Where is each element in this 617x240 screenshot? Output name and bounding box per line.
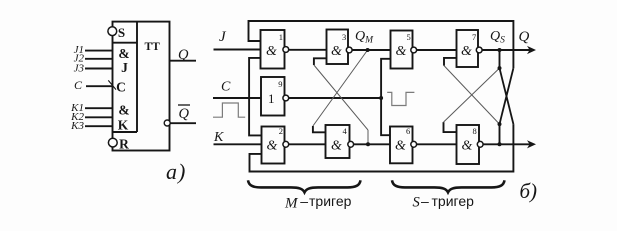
svg-text:&: &	[118, 46, 129, 61]
wire QM: gate3 out to gate5 in	[352, 49, 390, 51]
junction QM	[366, 48, 370, 52]
stub Q junction down	[499, 50, 501, 68]
junction gate4 output	[366, 142, 370, 146]
brace under slave section	[392, 180, 505, 192]
wire input C	[213, 97, 261, 99]
svg-text:J: J	[121, 60, 128, 75]
svg-text:&: &	[396, 44, 407, 59]
slave latch cross wire Q to gate8	[444, 68, 500, 122]
gate U2 (NAND &, pin 2)	[262, 127, 285, 164]
svg-text:S: S	[118, 25, 125, 40]
gate U5 (NAND &, pin 5)	[391, 31, 413, 69]
svg-text:&: &	[462, 139, 473, 154]
svg-text:7: 7	[472, 32, 476, 42]
svg-text:1: 1	[279, 32, 283, 42]
svg-text:&: &	[267, 139, 278, 154]
wire gate6 out to gate8 in	[417, 143, 457, 145]
gate U4 (NAND &, pin 4)	[326, 125, 350, 158]
svg-text:&: &	[118, 102, 129, 117]
svg-text:4: 4	[343, 126, 348, 136]
gate8 upper input hook	[444, 122, 457, 132]
divider under K row	[113, 131, 138, 133]
gate7 lower input hook	[444, 58, 457, 66]
svg-text:&: &	[331, 139, 342, 154]
junction on Q-bar line	[498, 142, 502, 146]
wire input K2	[85, 116, 113, 118]
svg-text:&: &	[331, 44, 342, 59]
wire Q output line with junctions	[482, 49, 531, 51]
svg-text:C: C	[74, 78, 83, 92]
svg-text:3: 3	[342, 32, 346, 42]
bottom feedback rail from Q to gate 2	[250, 124, 514, 171]
svg-text:8: 8	[473, 126, 477, 136]
S input bubble	[108, 27, 117, 36]
wire gate5 out to gate7 in	[417, 49, 457, 51]
feedback cross diagonal Q to bottom rail	[500, 68, 514, 124]
master latch cross wire gate4-out to gate3	[367, 130, 369, 144]
R input bubble	[108, 138, 117, 147]
svg-text:Q: Q	[519, 29, 530, 45]
symbol column divider	[136, 22, 138, 132]
svg-text:&: &	[395, 139, 406, 154]
svg-text:QМ: QМ	[355, 29, 374, 46]
wire input J2	[85, 58, 113, 60]
stub Q-bar junction up	[499, 124, 501, 144]
gate4 upper input hook	[313, 126, 326, 132]
svg-text:K3: K3	[70, 120, 84, 132]
wire input K	[214, 143, 262, 145]
svg-text:&: &	[461, 44, 472, 59]
divider under S row	[113, 42, 138, 44]
master latch cross wire QM to gate4	[313, 50, 368, 126]
svg-text:5: 5	[407, 32, 411, 42]
wire gate1 out to gate3 in	[289, 49, 327, 51]
dynamic input slash on C	[108, 80, 116, 89]
gate U8 (NAND &, pin 8)	[457, 125, 480, 164]
clock branch vertical to gates 1 and 2	[249, 58, 261, 135]
svg-text:тригер: тригер	[309, 193, 352, 209]
svg-text:K: K	[118, 118, 129, 133]
svg-text:R: R	[119, 137, 129, 152]
brace under master section	[248, 180, 361, 192]
svg-text:TT: TT	[145, 41, 161, 53]
wire input K1	[85, 107, 113, 109]
gate U9 (inverter 1, pin 9)	[261, 77, 285, 116]
svg-text:2: 2	[279, 126, 283, 136]
wire gate2 out to gate4 in	[289, 143, 326, 145]
gate U1 (NAND &, pin 1)	[261, 30, 285, 69]
overbar of Q-bar	[178, 104, 190, 106]
arrow Q-bar output	[527, 140, 536, 148]
svg-text:М: М	[284, 196, 299, 212]
junction Q-bar cross	[498, 122, 502, 126]
gate U6 (NAND &, pin 6)	[390, 127, 413, 164]
svg-text:–: –	[421, 193, 429, 209]
svg-text:9: 9	[278, 79, 282, 89]
inverted clock waveform	[387, 92, 414, 105]
wire input C	[86, 85, 113, 87]
junction on Q line	[498, 48, 502, 52]
flip-flop symbol body DD1	[113, 22, 170, 151]
svg-text:–: –	[300, 193, 308, 209]
inversion bubble on Q-bar output	[164, 120, 170, 126]
gate U7 (NAND &, pin 7)	[457, 30, 479, 67]
junction inverted clock	[379, 96, 383, 100]
wire gate4 out to gate6 in	[354, 143, 390, 145]
junction Q cross	[498, 66, 502, 70]
svg-text:QS: QS	[490, 29, 505, 46]
gate3 lower input hook	[314, 58, 327, 65]
svg-text:C: C	[116, 80, 126, 95]
svg-text:Q: Q	[179, 106, 190, 122]
svg-text:а): а)	[166, 159, 186, 184]
feedback cross diagonal Q-bar to top rail	[500, 68, 514, 124]
svg-text:S: S	[413, 195, 421, 211]
svg-text:тригер: тригер	[432, 193, 475, 209]
arrow Q output	[527, 46, 536, 54]
svg-text:J: J	[219, 29, 227, 45]
svg-text:&: &	[266, 44, 277, 59]
gate U3 (NAND &, pin 3)	[327, 30, 349, 65]
wire input K3	[85, 125, 113, 127]
wire Q-bar output line	[483, 143, 531, 145]
svg-text:б): б)	[520, 179, 538, 203]
svg-text:K: K	[213, 130, 224, 145]
wire input J	[214, 49, 261, 51]
svg-text:Q: Q	[178, 47, 189, 63]
vertical inverted clock branch	[381, 59, 390, 135]
wire inverted clock from gate9 to gates 5,6	[289, 97, 381, 99]
wire input J3	[85, 68, 113, 70]
svg-text:J3: J3	[74, 62, 85, 74]
wire output Q	[170, 60, 197, 62]
svg-text:C: C	[221, 80, 231, 95]
clock waveform at C input	[213, 103, 245, 117]
wire input J1	[85, 50, 113, 52]
wire output Q-bar	[170, 122, 196, 124]
slave latch cross wire Q-bar to gate7	[444, 66, 500, 125]
svg-text:1: 1	[268, 91, 275, 106]
svg-text:6: 6	[406, 126, 410, 136]
top feedback rail from Q-bar to gate 1	[249, 21, 514, 68]
